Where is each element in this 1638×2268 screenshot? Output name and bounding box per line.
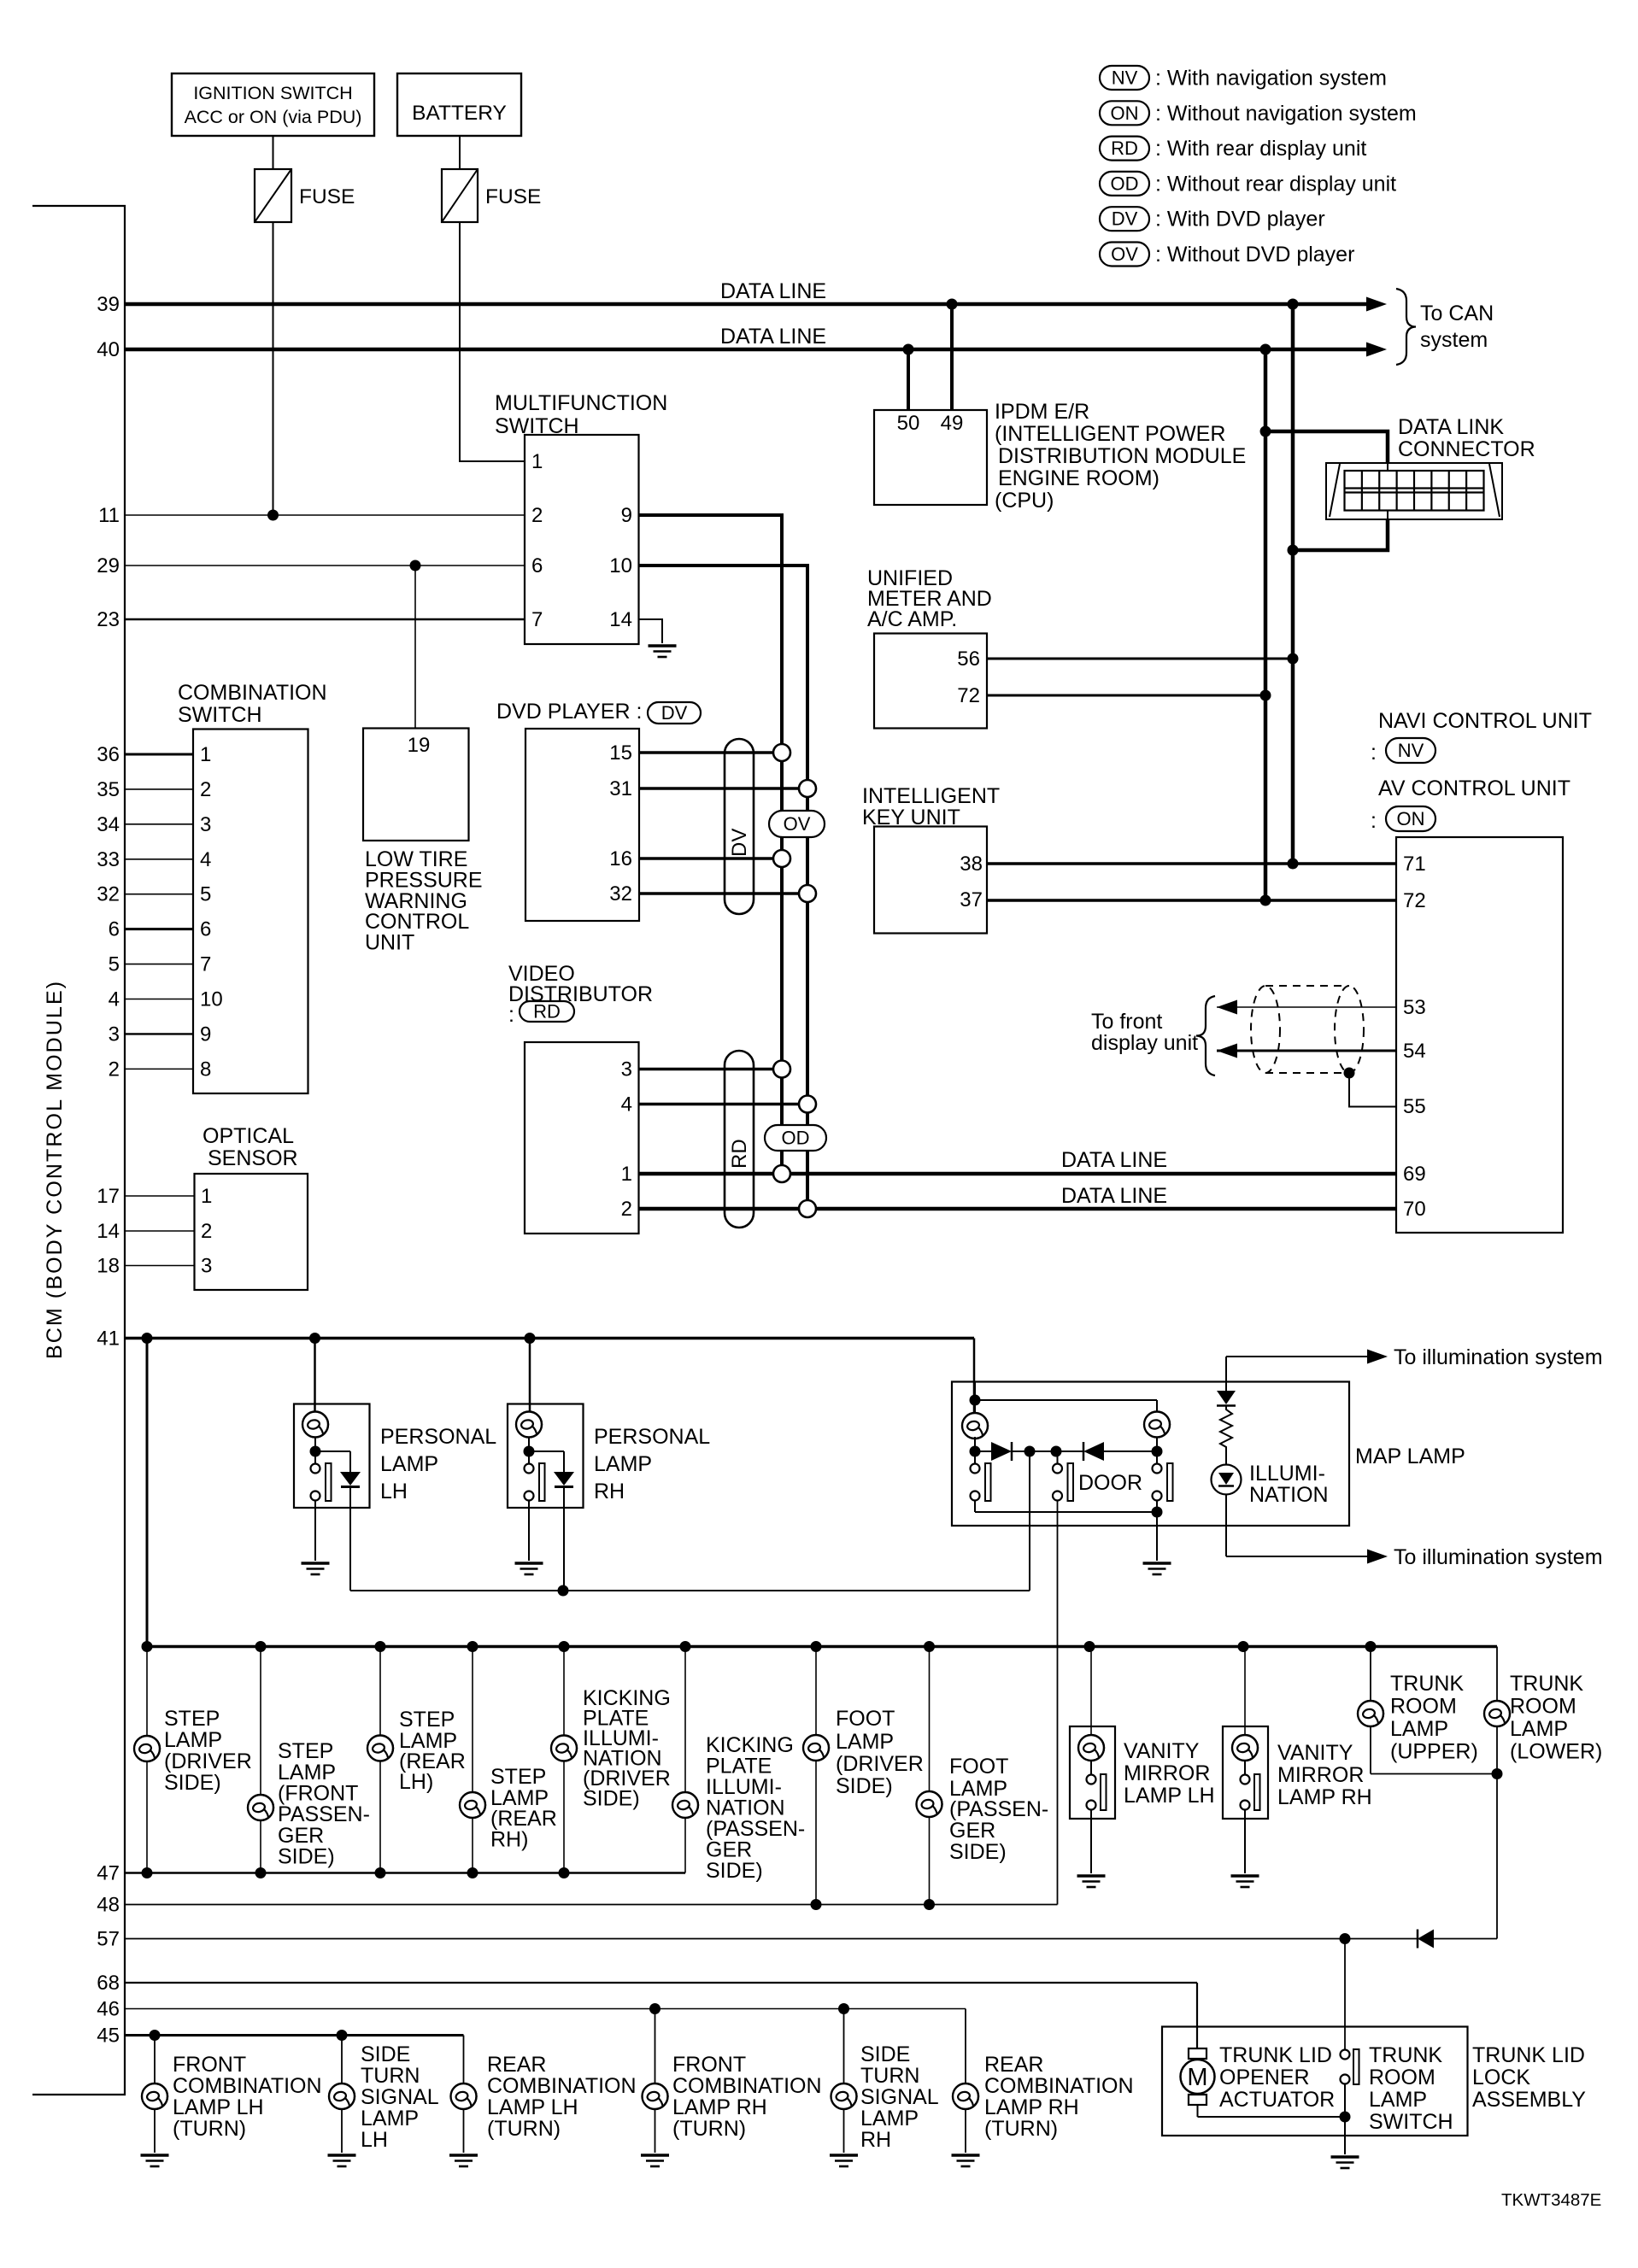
svg-text:STEP: STEP xyxy=(490,1765,546,1789)
OV bypass oval xyxy=(769,811,825,837)
legend DV xyxy=(1100,207,1325,231)
step lamp driver side xyxy=(134,1647,252,1873)
foot lamp passenger side xyxy=(917,1647,1049,1905)
svg-text:BATTERY: BATTERY xyxy=(412,102,507,125)
svg-text:49: 49 xyxy=(941,412,964,435)
svg-text:ILLUMI-: ILLUMI- xyxy=(1249,1462,1325,1486)
svg-text:46: 46 xyxy=(97,1998,120,2021)
svg-text:OV: OV xyxy=(1111,243,1138,265)
svg-text:1: 1 xyxy=(201,1185,212,1208)
svg-text:15: 15 xyxy=(609,741,632,765)
svg-text:45: 45 xyxy=(97,2025,120,2048)
svg-text:: With navigation system: : With navigation system xyxy=(1155,67,1387,91)
svg-text:48: 48 xyxy=(97,1894,120,1917)
svg-text:ACC or ON (via PDU): ACC or ON (via PDU) xyxy=(185,107,362,127)
svg-text:37: 37 xyxy=(960,888,983,911)
wire data line video pin 1 to AV unit pin 69 xyxy=(639,1148,1396,1174)
lamp feed bus xyxy=(142,1641,1498,1652)
map lamp switch RH xyxy=(1153,1451,1173,1501)
svg-text:LAMP: LAMP xyxy=(836,1730,894,1754)
svg-text:50: 50 xyxy=(897,412,920,435)
to front display unit brace and label xyxy=(1091,996,1215,1075)
wire to data link connector top xyxy=(1260,426,1388,464)
svg-text:MAP LAMP: MAP LAMP xyxy=(1355,1445,1465,1468)
video distributor label xyxy=(508,962,653,1027)
svg-text:71: 71 xyxy=(1403,853,1426,876)
wire 33 to combination switch pin 4 xyxy=(97,848,211,871)
svg-text:LAMP: LAMP xyxy=(164,1728,222,1752)
svg-text:To CAN: To CAN xyxy=(1420,302,1494,325)
svg-text:: Without rear display unit: : Without rear display unit xyxy=(1155,172,1396,196)
DVD player label xyxy=(496,700,701,724)
svg-text:SIDE): SIDE) xyxy=(836,1774,893,1798)
map lamp box xyxy=(952,1382,1349,1527)
To CAN system brace and label xyxy=(1396,289,1494,365)
svg-text:(TURN): (TURN) xyxy=(487,2117,561,2141)
svg-text:RH): RH) xyxy=(490,1828,528,1852)
svg-text:ON: ON xyxy=(1111,103,1139,124)
svg-text:LAMP LH: LAMP LH xyxy=(487,2095,578,2119)
svg-text:5: 5 xyxy=(109,953,120,976)
svg-text:OPTICAL: OPTICAL xyxy=(203,1124,294,1148)
AV control unit label xyxy=(1371,777,1570,833)
connector node at 945,1046 xyxy=(799,885,816,902)
BCM label xyxy=(43,980,67,1359)
wire AV pin 53 to front display unit xyxy=(1217,1000,1396,1015)
wire 41 lamp feed xyxy=(97,1327,974,1351)
foot lamp driver side xyxy=(803,1647,924,1905)
DVD player box xyxy=(525,729,639,921)
svg-text:LH: LH xyxy=(361,2128,388,2152)
svg-text:69: 69 xyxy=(1403,1163,1426,1186)
wire 29 to multifunction switch pin 6 xyxy=(97,554,525,577)
svg-text:LAMP LH: LAMP LH xyxy=(1124,1784,1215,1808)
svg-text:57: 57 xyxy=(97,1928,120,1951)
step lamp rear LH xyxy=(367,1647,466,1873)
map lamp inner feed wire xyxy=(975,1400,1157,1412)
svg-text:34: 34 xyxy=(97,813,120,836)
personal lamp RH xyxy=(508,1404,710,1591)
wire DVD pin 32 xyxy=(639,892,807,895)
diagram code xyxy=(1501,2190,1601,2210)
wire CAN vertical from line 40 xyxy=(1264,349,1268,900)
wire 45 LH turn lamp feed xyxy=(97,2025,463,2048)
svg-text:1: 1 xyxy=(621,1163,632,1186)
svg-text:GER: GER xyxy=(949,1819,995,1843)
svg-text:AV CONTROL UNIT: AV CONTROL UNIT xyxy=(1378,777,1570,800)
rear combination lamp RH xyxy=(952,2009,1134,2167)
svg-text:35: 35 xyxy=(97,778,120,801)
svg-text:IGNITION SWITCH: IGNITION SWITCH xyxy=(193,83,352,103)
front combination lamp LH xyxy=(141,2036,322,2167)
wire video distributor pin 4 xyxy=(639,1103,807,1106)
wire 32 to combination switch pin 5 xyxy=(97,883,211,906)
svg-text:system: system xyxy=(1420,328,1488,352)
svg-text:NV: NV xyxy=(1112,67,1138,89)
svg-text:NATION: NATION xyxy=(1249,1483,1329,1507)
svg-text:DV: DV xyxy=(728,829,751,857)
map lamp bulb RH xyxy=(1144,1412,1170,1438)
svg-text:COMBINATION: COMBINATION xyxy=(178,681,327,705)
svg-text:display unit: display unit xyxy=(1091,1031,1198,1055)
svg-text:DATA LINK: DATA LINK xyxy=(1398,415,1504,439)
svg-text:: With DVD player: : With DVD player xyxy=(1155,208,1325,231)
svg-text:: Without DVD player: : Without DVD player xyxy=(1155,243,1354,267)
svg-text::: : xyxy=(1371,809,1377,833)
svg-text:MULTIFUNCTION: MULTIFUNCTION xyxy=(495,391,667,415)
svg-text:SIDE: SIDE xyxy=(361,2042,410,2066)
combination switch label xyxy=(178,681,327,727)
trunk room lamp upper xyxy=(1358,1647,1503,1780)
svg-text:68: 68 xyxy=(97,1972,120,1995)
wire personal lamp diodes to map lamp xyxy=(350,1451,1030,1597)
legend OD xyxy=(1100,172,1396,196)
svg-text:(CPU): (CPU) xyxy=(995,489,1054,513)
wire 46 RH turn lamp feed xyxy=(97,1998,966,2021)
wire intelligent key pin 38 to AV unit pin 71 xyxy=(987,859,1396,870)
svg-text:DATA LINE: DATA LINE xyxy=(1061,1148,1167,1172)
wire AV pin 54 to front display unit xyxy=(1217,1044,1396,1058)
svg-text:BCM (BODY CONTROL MODULE): BCM (BODY CONTROL MODULE) xyxy=(43,980,67,1359)
svg-text:DOOR: DOOR xyxy=(1078,1471,1142,1495)
svg-text:32: 32 xyxy=(97,883,120,906)
connector node at 945,923 xyxy=(799,780,816,797)
wire 68 trunk lid opener xyxy=(97,1972,1197,2049)
svg-text:(INTELLIGENT POWER: (INTELLIGENT POWER xyxy=(995,422,1225,446)
AV control unit box xyxy=(1396,837,1563,1233)
wire video distributor pin 3 xyxy=(639,1068,782,1071)
svg-text:RH: RH xyxy=(594,1480,625,1503)
wire 41 drop to personal lamp LH xyxy=(314,1339,316,1413)
map lamp switch return wire and ground xyxy=(975,1500,1171,1574)
svg-text:11: 11 xyxy=(98,504,120,527)
wire 23 to multifunction switch pin 7 xyxy=(97,608,525,631)
optical sensor label xyxy=(203,1124,298,1170)
svg-text:72: 72 xyxy=(957,684,980,707)
svg-text:8: 8 xyxy=(200,1058,211,1081)
wire 47 step lamp return xyxy=(97,1862,685,1885)
step lamp rear RH xyxy=(460,1647,557,1873)
svg-text:SWITCH: SWITCH xyxy=(178,703,262,727)
svg-text:(DRIVER: (DRIVER xyxy=(164,1749,252,1773)
svg-text:TRUNK: TRUNK xyxy=(1510,1672,1583,1696)
svg-text:2: 2 xyxy=(531,504,543,527)
svg-text:6: 6 xyxy=(531,554,543,577)
svg-text:SIDE): SIDE) xyxy=(278,1845,335,1869)
svg-text:1: 1 xyxy=(531,450,543,473)
svg-text:LH): LH) xyxy=(399,1770,433,1794)
wire fuse F1 down to line 11 junction xyxy=(273,222,274,515)
svg-text:NV: NV xyxy=(1398,740,1424,761)
kicking plate illumination passenger side xyxy=(672,1647,805,1884)
svg-text:STEP: STEP xyxy=(164,1707,220,1731)
svg-text:29: 29 xyxy=(97,554,120,577)
wire data line video pin 2 to AV unit pin 70 xyxy=(639,1184,1396,1209)
connector node at 915,1374 xyxy=(773,1165,790,1182)
wire intelligent key pin 37 to AV unit pin 72 xyxy=(987,895,1396,906)
svg-text:DVD PLAYER :: DVD PLAYER : xyxy=(496,700,642,724)
wire from data link connector bottom xyxy=(1288,519,1388,556)
svg-text:SIDE): SIDE) xyxy=(949,1840,1007,1864)
svg-text:2: 2 xyxy=(109,1058,120,1081)
svg-text:SENSOR: SENSOR xyxy=(208,1146,298,1170)
svg-text:FRONT: FRONT xyxy=(173,2053,246,2077)
svg-text:72: 72 xyxy=(1403,889,1426,912)
svg-text:FOOT: FOOT xyxy=(949,1755,1008,1779)
svg-text:LAMP: LAMP xyxy=(1369,2088,1427,2112)
svg-text:(PASSEN-: (PASSEN- xyxy=(949,1797,1048,1821)
low tire pressure warning control unit box xyxy=(363,729,469,841)
svg-text:(TURN): (TURN) xyxy=(672,2117,746,2141)
svg-text:14: 14 xyxy=(97,1220,120,1243)
wire to illumination system (top) xyxy=(1226,1345,1603,1382)
wire 41 drop to personal lamp RH xyxy=(529,1339,531,1413)
legend RD xyxy=(1100,137,1366,161)
connector node at 915,881 xyxy=(773,744,790,761)
svg-text:A/C AMP.: A/C AMP. xyxy=(867,607,957,631)
svg-text:FRONT: FRONT xyxy=(672,2053,746,2077)
svg-text:17: 17 xyxy=(97,1185,120,1208)
combination switch box xyxy=(193,730,308,1094)
svg-text:STEP: STEP xyxy=(278,1739,333,1763)
svg-text:RH: RH xyxy=(860,2128,891,2152)
video distributor box xyxy=(525,1042,639,1234)
wire battery to fuse xyxy=(459,136,461,169)
wire unified meter pin 56 to CAN xyxy=(987,653,1299,665)
svg-text:DATA LINE: DATA LINE xyxy=(720,325,826,349)
svg-text:4: 4 xyxy=(200,848,211,871)
svg-text:To front: To front xyxy=(1091,1010,1162,1034)
multifunction switch box xyxy=(525,435,639,644)
wire multifunction pin 14 to ground xyxy=(639,619,663,643)
svg-text:To illumination system: To illumination system xyxy=(1394,1345,1603,1369)
wire 2 to combination switch pin 8 xyxy=(109,1058,212,1081)
svg-text:LH: LH xyxy=(380,1480,408,1503)
wire 6 to combination switch pin 6 xyxy=(109,918,212,941)
svg-text:3: 3 xyxy=(109,1023,120,1046)
map lamp switch LH xyxy=(971,1451,991,1501)
svg-text:14: 14 xyxy=(609,608,632,631)
svg-text:19: 19 xyxy=(408,734,431,757)
multifunction switch label xyxy=(495,391,667,438)
connector node at 945,1415 xyxy=(799,1200,816,1217)
map lamp illumination resistor xyxy=(1220,1406,1232,1465)
wire CAN vertical from line 39 xyxy=(1291,304,1295,864)
wire 57 trunk lamp feed xyxy=(97,1928,1418,1951)
side turn signal lamp LH xyxy=(328,2036,439,2167)
svg-text:CONNECTOR: CONNECTOR xyxy=(1398,437,1535,461)
svg-text:3: 3 xyxy=(200,813,211,836)
wire 36 to combination switch pin 1 xyxy=(97,743,211,766)
svg-text:(UPPER): (UPPER) xyxy=(1390,1740,1478,1764)
svg-text:LOCK: LOCK xyxy=(1472,2066,1530,2089)
map lamp illumination diode xyxy=(1217,1382,1236,1406)
wire 48 foot lamp return xyxy=(97,1894,1057,1917)
wire 49 from line 39 to IPDM xyxy=(950,304,954,410)
svg-text:PERSONAL: PERSONAL xyxy=(380,1425,496,1449)
connector node at 915,1005 xyxy=(773,850,790,867)
svg-text:VANITY: VANITY xyxy=(1277,1741,1353,1765)
svg-text:TURN: TURN xyxy=(860,2064,919,2088)
fuse F2 (battery) xyxy=(442,169,541,222)
svg-text:To illumination system: To illumination system xyxy=(1394,1545,1603,1569)
svg-text:54: 54 xyxy=(1403,1040,1426,1063)
svg-text:VANITY: VANITY xyxy=(1124,1739,1200,1763)
svg-text:LAMP: LAMP xyxy=(594,1452,652,1476)
svg-text:40: 40 xyxy=(97,338,120,361)
map lamp illumination lamp xyxy=(1212,1465,1242,1557)
OD bypass oval xyxy=(765,1125,826,1151)
svg-text:SIDE): SIDE) xyxy=(583,1787,640,1811)
svg-text:23: 23 xyxy=(97,608,120,631)
navi control unit label xyxy=(1371,709,1592,765)
svg-text:COMBINATION: COMBINATION xyxy=(487,2074,637,2098)
trunk lid opener actuator label xyxy=(1219,2043,1335,2112)
wire DVD pin 15 xyxy=(639,751,782,754)
svg-text:TRUNK LID: TRUNK LID xyxy=(1472,2043,1585,2067)
wire multifunction pin 10 down to connector column B xyxy=(639,566,808,1209)
svg-text:2: 2 xyxy=(200,778,211,801)
wire 50 from line 40 to IPDM xyxy=(907,349,910,410)
svg-text:53: 53 xyxy=(1403,996,1426,1019)
svg-text:70: 70 xyxy=(1403,1198,1426,1221)
svg-text:38: 38 xyxy=(960,853,983,876)
svg-text:SIDE): SIDE) xyxy=(706,1859,763,1883)
svg-text:6: 6 xyxy=(109,918,120,941)
svg-text:OPENER: OPENER xyxy=(1219,2066,1310,2089)
svg-text:OD: OD xyxy=(782,1128,810,1149)
unified meter and A/C amp box xyxy=(874,634,987,729)
svg-text:COMBINATION: COMBINATION xyxy=(984,2074,1134,2098)
wire unified meter pin 72 to CAN xyxy=(987,690,1271,701)
svg-text:7: 7 xyxy=(200,953,211,976)
svg-text:TURN: TURN xyxy=(361,2064,420,2088)
svg-text:SWITCH: SWITCH xyxy=(1369,2110,1453,2134)
BCM (body control module) boundary xyxy=(32,206,125,2095)
svg-text:LAMP RH: LAMP RH xyxy=(984,2095,1079,2119)
trunk room lamp switch xyxy=(1331,1939,1359,2169)
wire 3 to combination switch pin 9 xyxy=(109,1023,212,1046)
svg-text:REAR: REAR xyxy=(984,2053,1043,2077)
svg-text:PERSONAL: PERSONAL xyxy=(594,1425,710,1449)
shielded cable around wires 53 and 54 xyxy=(1251,986,1364,1073)
wire 4 to combination switch pin 10 xyxy=(109,988,223,1011)
intelligent key unit box xyxy=(874,827,987,934)
svg-text:TRUNK LID: TRUNK LID xyxy=(1219,2043,1332,2067)
battery box xyxy=(397,73,521,136)
svg-text:MIRROR: MIRROR xyxy=(1277,1763,1364,1787)
svg-text:DV: DV xyxy=(661,702,688,724)
svg-text:LAMP RH: LAMP RH xyxy=(672,2095,767,2119)
svg-text:33: 33 xyxy=(97,848,120,871)
personal lamp LH xyxy=(294,1404,496,1591)
svg-text:OV: OV xyxy=(784,813,811,835)
wire to illumination system (bottom) xyxy=(1226,1545,1603,1569)
svg-text:INTELLIGENT: INTELLIGENT xyxy=(862,784,1000,808)
wire 11 to multifunction switch pin 2 xyxy=(98,504,525,527)
svg-text:ASSEMBLY: ASSEMBLY xyxy=(1472,2088,1586,2112)
svg-text:M: M xyxy=(1187,2064,1207,2091)
svg-text:: Without navigation system: : Without navigation system xyxy=(1155,102,1417,126)
svg-text:(TURN): (TURN) xyxy=(173,2117,246,2141)
svg-text:FUSE: FUSE xyxy=(485,185,541,208)
svg-text:MIRROR: MIRROR xyxy=(1124,1761,1210,1785)
ground at multifunction pin 14 xyxy=(649,646,677,657)
svg-text:NAVI CONTROL UNIT: NAVI CONTROL UNIT xyxy=(1378,709,1592,733)
wire ignition switch to fuse xyxy=(273,136,274,169)
kicking plate illumination driver side xyxy=(551,1647,671,1873)
svg-text:1: 1 xyxy=(200,743,211,766)
svg-text:FUSE: FUSE xyxy=(299,185,355,208)
svg-text:LAMP RH: LAMP RH xyxy=(1277,1785,1372,1809)
side turn signal lamp RH xyxy=(830,2009,939,2167)
svg-text:SIGNAL: SIGNAL xyxy=(361,2085,439,2109)
svg-text::: : xyxy=(1371,741,1377,765)
svg-text:RD: RD xyxy=(728,1139,751,1169)
svg-text:TKWT3487E: TKWT3487E xyxy=(1501,2190,1601,2210)
svg-text:SIGNAL: SIGNAL xyxy=(860,2085,939,2109)
wire door switch to line 48 xyxy=(1057,1500,1059,1905)
IPDM E/R box xyxy=(874,410,987,505)
svg-text:32: 32 xyxy=(609,882,632,905)
svg-text:REAR: REAR xyxy=(487,2053,546,2077)
fuse F1 (ignition) xyxy=(255,169,355,222)
svg-text:COMBINATION: COMBINATION xyxy=(672,2074,822,2098)
wire 41 drop to map lamp xyxy=(973,1339,976,1414)
svg-text:9: 9 xyxy=(621,504,632,527)
rear combination lamp LH xyxy=(449,2036,637,2167)
IPDM E/R label xyxy=(995,400,1246,513)
svg-text:PASSEN-: PASSEN- xyxy=(278,1802,370,1826)
svg-text:DV: DV xyxy=(1112,208,1138,230)
svg-text:56: 56 xyxy=(957,648,980,671)
svg-text:ROOM: ROOM xyxy=(1390,1695,1457,1719)
trunk lid opener actuator motor xyxy=(1181,2048,1351,2123)
map lamp diode left (pointing right) xyxy=(970,1437,1036,1461)
wire shield drain to AV pin 55 xyxy=(1344,1068,1397,1107)
wire 41 drop to lamp bus xyxy=(146,1339,149,1647)
svg-text:COMBINATION: COMBINATION xyxy=(173,2074,322,2098)
svg-text:DATA LINE: DATA LINE xyxy=(1061,1184,1167,1208)
trunk lid lock assembly label xyxy=(1472,2043,1586,2112)
wire 18 to optical sensor pin 3 xyxy=(97,1255,212,1278)
svg-text:LAMP LH: LAMP LH xyxy=(173,2095,264,2119)
svg-text:(DRIVER: (DRIVER xyxy=(836,1752,924,1776)
wire DVD pin 16 xyxy=(639,857,782,860)
svg-text:55: 55 xyxy=(1403,1095,1426,1118)
illumination label xyxy=(1249,1462,1329,1507)
svg-text:ROOM: ROOM xyxy=(1369,2066,1435,2089)
wire 40 CAN data line xyxy=(97,325,1387,361)
svg-text:TRUNK: TRUNK xyxy=(1390,1672,1464,1696)
svg-text:16: 16 xyxy=(609,847,632,870)
map lamp bulb LH xyxy=(962,1382,988,1439)
data link connector label xyxy=(1398,415,1535,461)
trunk lid lock assembly box xyxy=(1162,2027,1468,2136)
svg-text:(LOWER): (LOWER) xyxy=(1510,1740,1602,1764)
legend NV xyxy=(1100,66,1387,91)
svg-text:ENGINE ROOM): ENGINE ROOM) xyxy=(998,466,1160,490)
svg-text:LAMP: LAMP xyxy=(860,2107,919,2130)
svg-text:9: 9 xyxy=(200,1023,211,1046)
RD capsule connector xyxy=(725,1051,754,1228)
diode on wire 57 xyxy=(1418,1930,1497,1949)
svg-text:UNIT: UNIT xyxy=(365,931,414,955)
wire 29 branch to low tire unit pin 19 xyxy=(414,566,416,729)
svg-text:(TURN): (TURN) xyxy=(984,2117,1058,2141)
svg-text:RD: RD xyxy=(1111,138,1138,159)
svg-text:LAMP: LAMP xyxy=(380,1452,438,1476)
